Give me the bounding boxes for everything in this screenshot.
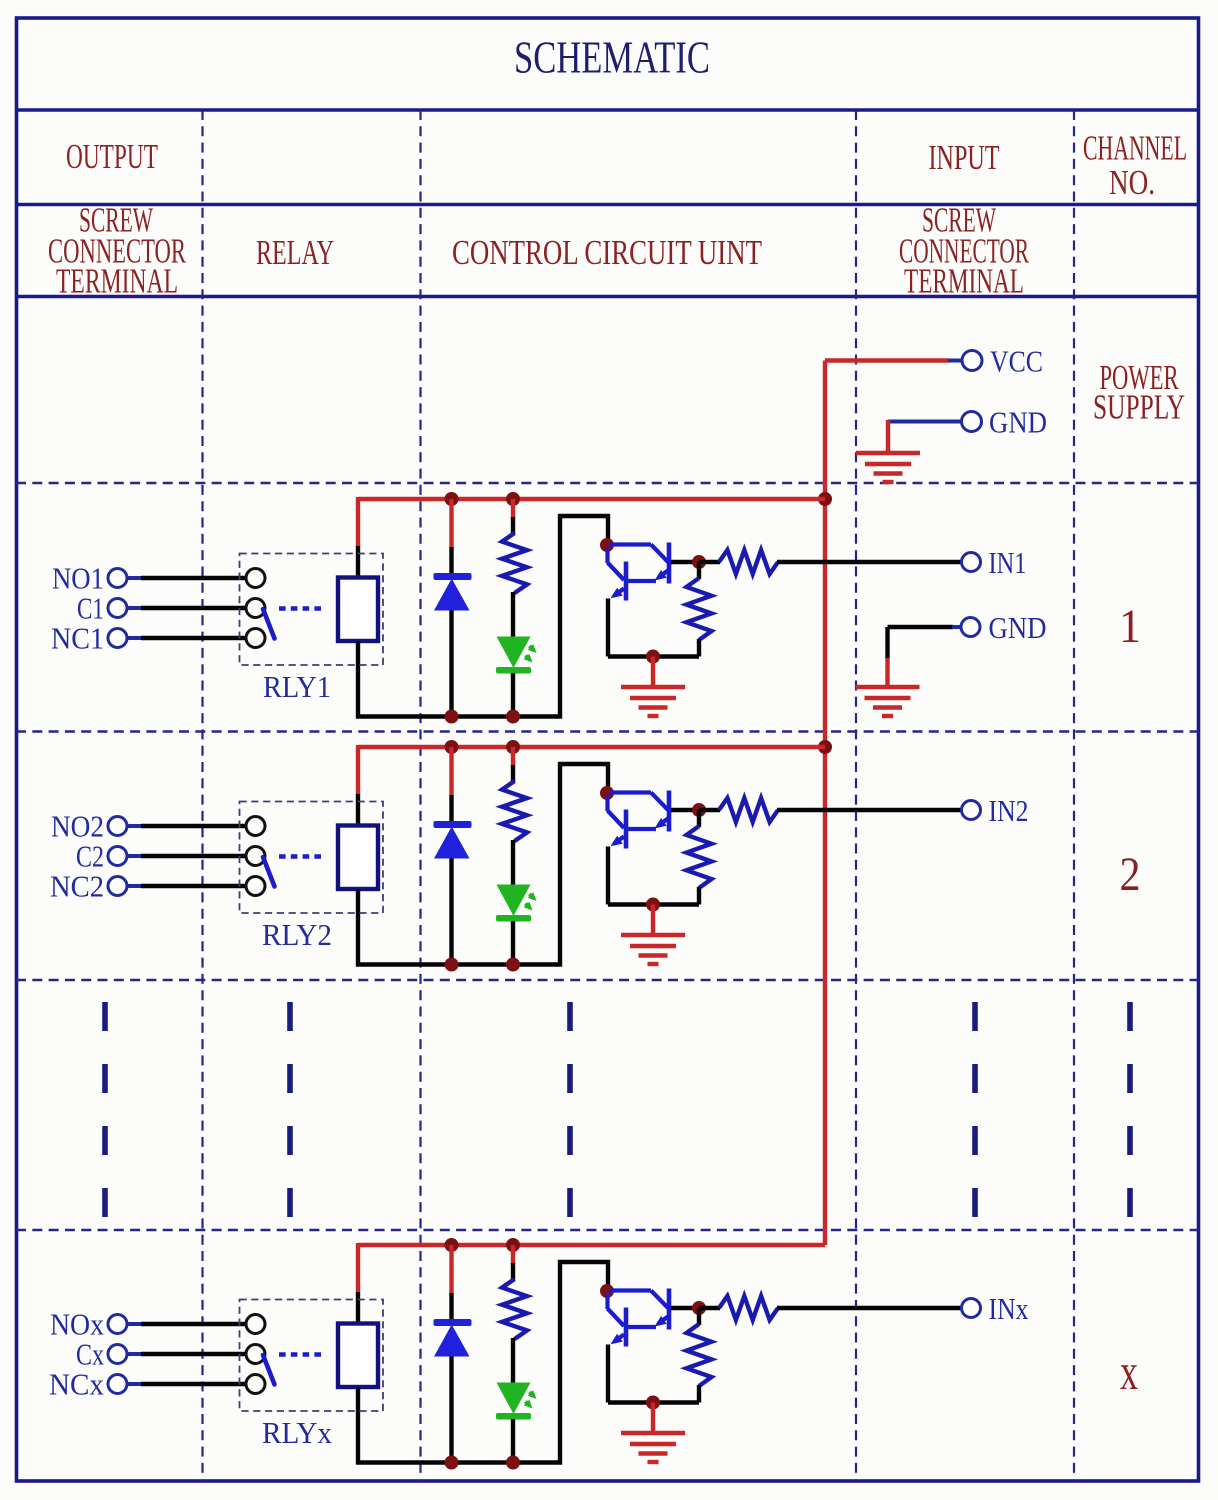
svg-text:TERMINAL: TERMINAL	[904, 262, 1024, 301]
relay coil RLY1	[338, 578, 378, 642]
relay contact NO2	[246, 817, 265, 836]
wire emitter down channel 2	[606, 847, 610, 905]
relay coil RLYx	[338, 1324, 378, 1388]
LED LED1 light arrow 1	[530, 646, 535, 651]
wire LED-resistor branch upper (black) channel 1	[511, 517, 515, 534]
svg-text:CONTROL CIRCUIT UINT: CONTROL CIRCUIT UINT	[452, 233, 762, 272]
transistor Qxb emitter with arrow	[658, 1317, 668, 1324]
wire LED-resistor branch upper (red) channel 2	[511, 747, 515, 766]
wire diode branch upper (black) channel x	[449, 1293, 453, 1321]
svg-text:TERMINAL: TERMINAL	[56, 262, 178, 301]
terminal NCx	[108, 1375, 127, 1394]
node collector junction channel x	[600, 1284, 614, 1298]
relay contact NO1	[246, 569, 265, 588]
column separator 3 (dashed)	[855, 110, 857, 1481]
svg-text:RLY1: RLY1	[263, 669, 331, 704]
wire ground stem channel 1	[651, 657, 655, 688]
node LED-rail junction channel x	[506, 1456, 520, 1470]
svg-text:NCx: NCx	[49, 1367, 104, 1402]
wire relay coil bottom channel 1	[356, 641, 360, 719]
node base junction channel x	[692, 1301, 706, 1315]
table line below first header row	[16, 203, 1199, 206]
transistor Q1a collector wire	[605, 547, 609, 563]
diode Dx (flyback) cathode bar	[434, 1319, 472, 1326]
relay RLY1 linkage (dashed)	[279, 606, 323, 611]
node ground junction channel 1	[646, 650, 660, 664]
node bus-resistor junction channel 2	[506, 740, 520, 754]
wire relay coil top (black segment) channel 2	[356, 794, 360, 826]
LED LED2 triangle	[497, 885, 531, 917]
wire C1 (navy stub)	[127, 606, 143, 610]
relay RLYx switch arm	[263, 1355, 275, 1385]
wire GND terminal (navy)	[888, 420, 961, 424]
node bus-diode junction channel 2	[445, 740, 459, 754]
wire VCC feed (red)	[825, 358, 949, 362]
svg-text:IN1: IN1	[989, 545, 1027, 580]
node diode-rail junction channel x	[445, 1456, 459, 1470]
wire relay coil top (black segment) channel x	[356, 1292, 360, 1324]
wire NO2 to relay contact	[141, 824, 247, 828]
node diode-rail junction channel 2	[445, 958, 459, 972]
relay coil RLY2	[338, 826, 378, 890]
wire NCx (navy stub)	[127, 1382, 143, 1386]
wire resistor to LED channel 1	[511, 592, 515, 638]
node collector junction channel 1	[600, 538, 614, 552]
wire resistor to LED channel 2	[511, 840, 515, 886]
terminal NOx	[108, 1315, 127, 1334]
transistor Q2a emitter with arrow	[614, 837, 624, 844]
row separator power/ch1 (dashed)	[16, 482, 1199, 485]
transistor Qxb collector bar wire	[609, 1288, 651, 1292]
LED LEDx triangle	[497, 1383, 531, 1415]
diode D1 (flyback) cathode bar	[434, 573, 472, 580]
svg-text:CHANNEL: CHANNEL	[1083, 129, 1187, 168]
LED LEDx light arrow 1	[530, 1392, 535, 1397]
terminal IN1	[962, 553, 981, 572]
wire INx to base resistor channel x	[777, 1306, 962, 1310]
terminal VCC	[962, 351, 982, 371]
wire LED-resistor branch upper (red) channel 1	[511, 499, 515, 518]
wire pulldown stub channel 2	[697, 810, 701, 827]
wire VCC bus channel x (red)	[358, 1243, 825, 1247]
wire Cx (navy stub)	[127, 1352, 143, 1356]
wire base resistor left stub channel 1	[699, 560, 720, 564]
resistor Rxa (LED series)	[502, 1279, 527, 1339]
relay RLYx linkage (dashed)	[279, 1352, 323, 1357]
wire NC2 to relay contact	[141, 884, 247, 888]
svg-text:2: 2	[1120, 848, 1141, 901]
resistor Rxc (base series)	[719, 1296, 778, 1320]
transistor Q2b base bar	[667, 791, 672, 832]
node LED-rail junction channel 1	[506, 710, 520, 724]
wire VCC bus channel 2 (red)	[358, 745, 825, 749]
table line below second header row	[16, 295, 1199, 298]
terminal Cx	[108, 1345, 127, 1364]
node bus-resistor junction channel 1	[506, 492, 520, 506]
node bus-diode junction channel 1	[445, 492, 459, 506]
transistor Q2b collector diagonal	[651, 793, 668, 811]
relay RLY2 switch arm	[263, 857, 275, 887]
wire collector rail channel 2	[356, 764, 608, 965]
node diode-rail junction channel 1	[445, 710, 459, 724]
node ground junction channel 2	[646, 898, 660, 912]
continuation ellipsis at x=975	[972, 1002, 978, 1218]
terminal NC2	[108, 877, 127, 896]
LED LEDx cathode bar	[496, 1413, 531, 1420]
wire VCC terminal stub (navy)	[948, 359, 962, 363]
transistor Q1b collector bar wire	[609, 542, 651, 546]
column separator 4 (dashed)	[1073, 110, 1075, 1481]
transistor Q2b collector bar wire	[609, 790, 651, 794]
svg-text:GND: GND	[989, 405, 1047, 440]
wire Cx to relay contact	[141, 1352, 247, 1356]
wire VCC bus vertical (red)	[823, 361, 827, 1246]
wire diode branch lower channel x	[449, 1357, 453, 1463]
row separator ch2/dots (dashed)	[16, 979, 1199, 982]
wire emitter down channel 1	[606, 599, 610, 657]
svg-text:RLY2: RLY2	[262, 917, 332, 952]
wire VCC bus channel 1 (red)	[358, 497, 825, 501]
column separator 2 (dashed)	[419, 110, 421, 1481]
continuation ellipsis at x=290	[287, 1002, 293, 1218]
svg-text:NO.: NO.	[1109, 163, 1155, 202]
terminal IN2	[962, 801, 981, 820]
svg-text:1: 1	[1119, 600, 1141, 653]
LED LED1 cathode bar	[496, 667, 531, 674]
wire emitter rail channel 2	[608, 902, 699, 906]
ground symbol channel 1	[621, 685, 685, 689]
node collector junction channel 2	[600, 786, 614, 800]
table line below title	[16, 108, 1199, 112]
relay RLY2 boundary box	[240, 802, 384, 914]
LED LED1 triangle	[497, 637, 531, 669]
terminal GND (power)	[962, 412, 982, 432]
column separator 1 (dashed)	[201, 110, 203, 1481]
diode Dx (flyback) triangle	[434, 1325, 470, 1357]
wire diode branch lower channel 1	[449, 611, 453, 717]
wire diode branch upper (black) channel 2	[449, 795, 453, 823]
wire Q2b emitter to Q2a base	[626, 827, 656, 831]
wire NC1 to relay contact	[141, 636, 247, 640]
ground symbol channel 1 input	[856, 685, 920, 689]
svg-text:SCHEMATIC: SCHEMATIC	[514, 32, 710, 83]
wire diode branch upper (black) channel 1	[449, 547, 453, 575]
wire C1 to relay contact	[141, 606, 247, 610]
wire base resistor left stub channel x	[699, 1306, 720, 1310]
svg-text:GND: GND	[989, 610, 1047, 645]
node LED-rail junction channel 2	[506, 958, 520, 972]
svg-text:SUPPLY: SUPPLY	[1093, 388, 1185, 427]
node VCC bus / channel 2 junction	[818, 740, 832, 754]
wire LED to rail channel 2	[511, 921, 515, 965]
wire diode branch upper (red) channel 1	[449, 499, 453, 548]
continuation ellipsis at x=570	[567, 1002, 573, 1218]
svg-text:VCC: VCC	[990, 344, 1043, 379]
transistor Q1a collector diagonal	[608, 563, 625, 581]
wire channel 1 ground stem upper (black)	[885, 627, 889, 659]
transistor Q2a base bar	[624, 810, 629, 849]
transistor Q1b collector diagonal	[651, 545, 668, 563]
relay RLYx boundary box	[240, 1300, 384, 1412]
wire emitter rail channel 1	[608, 654, 699, 658]
wire IN1 to base resistor channel 1	[777, 560, 962, 564]
wire pulldown to rail channel 2	[697, 887, 701, 905]
node VCC bus / channel 1 junction	[818, 492, 832, 506]
relay contact NC1	[246, 629, 265, 648]
wire base resistor left stub channel 2	[699, 808, 720, 812]
wire C2 (navy stub)	[127, 854, 143, 858]
row separator dots/chx (dashed)	[16, 1229, 1199, 1232]
wire relay coil top (red segment) channel 2	[356, 745, 360, 795]
wire pulldown stub channel 1	[697, 562, 701, 579]
wire NOx (navy stub)	[127, 1322, 143, 1326]
transistor Q1a emitter with arrow	[614, 589, 624, 596]
wire emitter rail channel x	[608, 1400, 699, 1404]
transistor Qxb collector diagonal	[651, 1291, 668, 1309]
wire power ground stem (red)	[886, 420, 890, 454]
wire diode branch lower channel 2	[449, 859, 453, 965]
svg-text:NC2: NC2	[50, 869, 104, 904]
wire ground stem channel 2	[651, 905, 655, 936]
wire NC2 (navy stub)	[127, 884, 143, 888]
resistor R2c (base series)	[719, 798, 778, 822]
svg-text:INPUT: INPUT	[929, 138, 1000, 177]
wire base junction to pulldown resistor channel 1	[671, 560, 701, 564]
relay contact NOx	[246, 1315, 265, 1334]
LED LED2 light arrow 2	[526, 904, 531, 909]
transistor Qxb base bar	[667, 1289, 672, 1330]
row separator ch1/ch2 (dashed)	[16, 730, 1199, 733]
transistor Qxa collector diagonal	[608, 1309, 625, 1327]
terminal INx	[962, 1299, 981, 1318]
svg-text:x: x	[1120, 1344, 1138, 1401]
node bus-resistor junction channel x	[506, 1238, 520, 1252]
svg-text:NC1: NC1	[51, 621, 104, 656]
LED LEDx light arrow 2	[526, 1402, 531, 1407]
wire channel 1 ground stem lower (red)	[885, 658, 889, 688]
transistor Qxa collector wire	[605, 1293, 609, 1309]
ground symbol power supply	[856, 451, 920, 455]
terminal NC1	[108, 629, 127, 648]
wire relay coil top (red segment) channel 1	[356, 497, 360, 547]
wire ground stem channel x	[651, 1403, 655, 1434]
wire NCx to relay contact	[141, 1382, 247, 1386]
resistor R1a (LED series)	[502, 533, 527, 593]
terminal NO2	[108, 817, 127, 836]
svg-text:IN2: IN2	[989, 793, 1029, 828]
LED LED1 light arrow 2	[526, 656, 531, 661]
relay contact C2	[246, 847, 265, 866]
wire pulldown to rail channel x	[697, 1385, 701, 1403]
LED LED2 light arrow 1	[530, 894, 535, 899]
transistor Q1b emitter with arrow	[658, 571, 668, 578]
diode D2 (flyback) triangle	[434, 827, 470, 859]
wire relay coil bottom channel x	[356, 1387, 360, 1465]
node base junction channel 2	[692, 803, 706, 817]
wire collector rail channel 1	[356, 516, 608, 717]
relay RLY1 switch arm	[263, 609, 275, 639]
transistor Qxa emitter with arrow	[614, 1335, 624, 1342]
wire relay coil top (red segment) channel x	[356, 1243, 360, 1293]
relay contact Cx	[246, 1345, 265, 1364]
relay contact NC2	[246, 877, 265, 896]
transistor Q2a collector diagonal	[608, 811, 625, 829]
terminal C2	[108, 847, 127, 866]
terminal NO1	[108, 569, 127, 588]
relay contact NCx	[246, 1375, 265, 1394]
wire Qxb emitter to Qxa base	[626, 1325, 656, 1329]
svg-text:RLYx: RLYx	[262, 1415, 332, 1450]
resistor Rxb (pulldown)	[687, 1324, 712, 1386]
relay RLY1 boundary box	[240, 554, 384, 666]
ground symbol channel 2	[621, 933, 685, 937]
wire NO1 (navy stub)	[127, 576, 143, 580]
transistor Q1b base bar	[667, 543, 672, 584]
wire NC1 (navy stub)	[127, 636, 143, 640]
wire LED to rail channel 1	[511, 673, 515, 717]
LED LED2 cathode bar	[496, 915, 531, 922]
resistor R2a (LED series)	[502, 781, 527, 841]
wire LED-resistor branch upper (red) channel x	[511, 1245, 515, 1264]
wire base junction to pulldown resistor channel x	[671, 1306, 701, 1310]
transistor Q1a base bar	[624, 562, 629, 601]
transistor Q2a collector wire	[605, 795, 609, 811]
wire relay coil bottom channel 2	[356, 889, 360, 967]
wire IN2 to base resistor channel 2	[777, 808, 962, 812]
diode D2 (flyback) cathode bar	[434, 821, 472, 828]
resistor R1c (base series)	[719, 550, 778, 574]
wire resistor to LED channel x	[511, 1338, 515, 1384]
wire LED-resistor branch upper (black) channel 2	[511, 765, 515, 782]
diode D1 (flyback) triangle	[434, 579, 470, 611]
transistor Q2b emitter with arrow	[658, 819, 668, 826]
wire base junction to pulldown resistor channel 2	[671, 808, 701, 812]
wire C2 to relay contact	[141, 854, 247, 858]
wire NO2 (navy stub)	[127, 824, 143, 828]
wire pulldown to rail channel 1	[697, 639, 701, 657]
terminal GND channel 1	[961, 618, 980, 637]
wire pulldown stub channel x	[697, 1308, 701, 1325]
ground symbol channel x	[621, 1431, 685, 1435]
relay RLY2 linkage (dashed)	[279, 854, 323, 859]
wire diode branch upper (red) channel x	[449, 1245, 453, 1294]
resistor R2b (pulldown)	[687, 826, 712, 888]
terminal C1	[108, 599, 127, 618]
wire relay coil top (black segment) channel 1	[356, 546, 360, 578]
node base junction channel 1	[692, 555, 706, 569]
wire emitter down channel x	[606, 1345, 610, 1403]
wire diode branch upper (red) channel 2	[449, 747, 453, 796]
wire NO1 to relay contact	[141, 576, 247, 580]
node ground junction channel x	[646, 1396, 660, 1410]
wire Q1b emitter to Q1a base	[626, 579, 656, 583]
svg-text:INx: INx	[989, 1291, 1029, 1326]
svg-text:RELAY: RELAY	[256, 233, 334, 272]
svg-text:OUTPUT: OUTPUT	[66, 137, 158, 176]
continuation ellipsis at x=1130	[1127, 1002, 1133, 1218]
resistor R1b (pulldown)	[687, 578, 712, 640]
relay contact C1	[246, 599, 265, 618]
wire collector rail channel x	[356, 1262, 608, 1463]
wire LED to rail channel x	[511, 1419, 515, 1463]
wire NOx to relay contact	[141, 1322, 247, 1326]
wire LED-resistor branch upper (black) channel x	[511, 1263, 515, 1280]
transistor Qxa base bar	[624, 1308, 629, 1347]
continuation ellipsis at x=105	[102, 1002, 108, 1218]
node bus-diode junction channel x	[445, 1238, 459, 1252]
wire GND terminal channel 1 (black)	[888, 625, 954, 629]
wire GND terminal channel 1 (navy stub)	[952, 625, 961, 629]
